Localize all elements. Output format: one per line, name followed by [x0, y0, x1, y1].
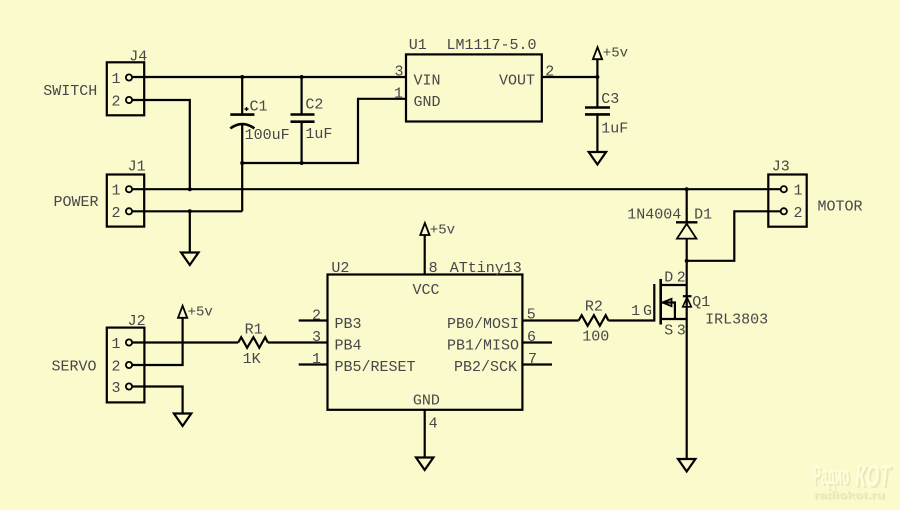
svg-text:J3: J3 — [772, 159, 790, 176]
transistor Q1 IRL3803 — [631, 270, 768, 340]
resistor R1 1K — [238, 322, 268, 369]
svg-text:VIN: VIN — [414, 73, 441, 90]
capacitor C2 1uF — [291, 97, 333, 144]
svg-text:R2: R2 — [585, 299, 603, 316]
svg-text:POWER: POWER — [54, 194, 99, 211]
wire U2 pin1 stub — [299, 363, 328, 365]
svg-text:C1: C1 — [250, 99, 268, 116]
wire gnd stem J1 — [189, 211, 191, 252]
watermark Радио КОТ — [813, 458, 894, 503]
junction C1 bottom — [240, 161, 244, 165]
svg-text:G: G — [643, 303, 652, 320]
wire J2.2 to +5v — [132, 318, 183, 366]
wire ground bus to U1 GND — [242, 99, 406, 163]
svg-text:2: 2 — [112, 205, 121, 222]
wire U2 pin2 stub — [299, 319, 328, 321]
wire C2 top stem — [301, 77, 303, 114]
svg-text:2: 2 — [312, 308, 321, 325]
svg-text:U1: U1 — [409, 37, 427, 54]
wire Q1 drain-source line — [686, 261, 688, 319]
connector J1 — [107, 175, 144, 227]
svg-text:PB5/RESET: PB5/RESET — [335, 359, 416, 376]
svg-text:КОТ: КОТ — [855, 458, 892, 493]
svg-text:+5v: +5v — [603, 46, 628, 62]
connector J4 — [107, 62, 144, 115]
capacitor C1 100uF — [230, 99, 289, 145]
junction C2 bottom — [300, 161, 304, 165]
svg-text:GND: GND — [413, 393, 440, 410]
junction J4.2-J1.1 — [188, 187, 192, 191]
svg-text:1: 1 — [394, 86, 403, 103]
ground below U2 GND — [416, 458, 433, 471]
svg-text:GND: GND — [414, 94, 441, 111]
wire J1.2 to C1 gnd column — [132, 210, 242, 212]
svg-text:PB2/SCK: PB2/SCK — [454, 359, 517, 376]
svg-text:MOTOR: MOTOR — [818, 199, 863, 216]
ground below Q1 source — [678, 459, 695, 472]
power +5v at J2.2 — [178, 305, 213, 321]
wire +5v stem above C3 — [596, 59, 598, 77]
wire node to J3.2 — [687, 211, 781, 260]
junction J1.2 ground — [188, 209, 192, 213]
svg-text:2: 2 — [794, 205, 803, 222]
wire U2 VCC stem — [424, 235, 426, 275]
ground below J2.3 — [174, 414, 191, 427]
wire D1 cathode stem — [686, 189, 688, 222]
svg-text:PB0/MOSI: PB0/MOSI — [447, 316, 519, 333]
svg-text:2: 2 — [112, 94, 121, 111]
svg-text:1: 1 — [112, 336, 121, 353]
svg-text:D: D — [664, 270, 673, 287]
svg-text:2: 2 — [112, 359, 121, 376]
svg-text:U2: U2 — [331, 260, 349, 277]
svg-text:SERVO: SERVO — [52, 359, 97, 376]
wire C1 bus down to J1.2 — [241, 163, 243, 211]
svg-text:J2: J2 — [128, 313, 146, 330]
wire C1 top stem — [241, 77, 243, 114]
svg-text:1: 1 — [631, 303, 640, 320]
resistor R2 100 — [579, 299, 610, 346]
svg-text:3: 3 — [112, 380, 121, 397]
svg-text:1: 1 — [794, 183, 803, 200]
wire U2 pin7 stub — [522, 363, 552, 365]
ground below C3 — [589, 152, 606, 165]
svg-text:8: 8 — [429, 260, 438, 277]
svg-text:4: 4 — [429, 416, 438, 433]
wire R1 to U2 pin3 — [268, 341, 328, 343]
svg-text:100: 100 — [582, 329, 609, 346]
svg-text:Q1: Q1 — [692, 294, 710, 311]
ground below J1 — [181, 253, 198, 266]
wire Q1 source to ground — [686, 319, 688, 459]
wire C3 top stem — [596, 77, 598, 107]
power +5v above C3 — [593, 46, 628, 62]
svg-text:PB4: PB4 — [335, 338, 362, 355]
junction C1 top — [240, 75, 244, 79]
junction +5v node — [595, 75, 599, 79]
wire J1.1 to motor node — [132, 188, 781, 190]
svg-text:IRL3803: IRL3803 — [705, 312, 768, 329]
diode D1 1N4004 — [627, 207, 712, 239]
wire J2.3 to ground — [132, 387, 183, 414]
IC U1 LM1117-5.0 — [394, 37, 554, 122]
junction motor node bottom — [685, 259, 689, 263]
svg-text:C3: C3 — [601, 91, 619, 108]
svg-text:PB1/MISO: PB1/MISO — [447, 338, 519, 355]
svg-text:D1: D1 — [694, 207, 712, 224]
wire C1 bottom stem — [241, 125, 243, 163]
wire D1 anode stem — [686, 239, 688, 261]
svg-text:1: 1 — [112, 71, 121, 88]
svg-text:100uF: 100uF — [245, 127, 290, 144]
junction C2 top — [300, 75, 304, 79]
wire J4.2 down to J1.1 net — [132, 100, 190, 189]
svg-text:radiokot.ru: radiokot.ru — [814, 490, 885, 502]
svg-text:J4: J4 — [129, 49, 147, 66]
wire C3 bottom stem — [596, 116, 598, 153]
junction motor node top — [685, 187, 689, 191]
svg-text:S: S — [664, 322, 673, 339]
wire U1 VOUT to +5v node — [542, 76, 598, 78]
wire U2 pin5 to R2 — [522, 319, 578, 321]
wire J2.1 to R1 — [132, 341, 238, 343]
connector J2 — [107, 328, 145, 403]
wire U2 GND stem — [424, 410, 426, 458]
svg-text:ATtiny13: ATtiny13 — [450, 260, 522, 277]
wire R2 to Q1 gate — [608, 284, 654, 321]
wire U2 pin6 stub — [522, 341, 552, 343]
svg-text:1uF: 1uF — [305, 126, 332, 143]
svg-text:LM1117-5.0: LM1117-5.0 — [447, 37, 537, 54]
connector J3 — [768, 175, 806, 227]
svg-text:3: 3 — [677, 322, 686, 339]
svg-text:Радио: Радио — [813, 460, 849, 490]
svg-text:PB3: PB3 — [335, 316, 362, 333]
svg-text:1N4004: 1N4004 — [627, 207, 681, 224]
svg-text:R1: R1 — [245, 322, 263, 339]
capacitor C3 1uF — [585, 91, 628, 138]
wire J4.1 to U1 VIN — [132, 76, 406, 78]
IC U2 ATtiny13 — [312, 260, 537, 433]
svg-text:2: 2 — [677, 270, 686, 287]
power +5v above U2 VCC — [420, 223, 455, 239]
svg-text:SWITCH: SWITCH — [43, 83, 97, 100]
svg-text:VOUT: VOUT — [499, 73, 535, 90]
svg-text:J1: J1 — [128, 159, 146, 176]
svg-text:+5v: +5v — [188, 305, 213, 321]
svg-text:VCC: VCC — [413, 282, 440, 299]
svg-text:+5v: +5v — [430, 223, 455, 239]
svg-text:C2: C2 — [305, 97, 323, 114]
svg-text:1: 1 — [112, 183, 121, 200]
wire C2 bottom stem — [301, 123, 303, 164]
svg-text:1K: 1K — [243, 351, 261, 368]
svg-text:1uF: 1uF — [601, 121, 628, 138]
